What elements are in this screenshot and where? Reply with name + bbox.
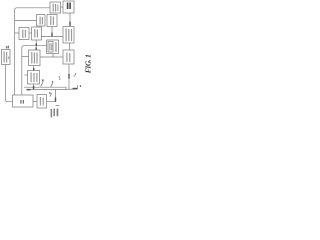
small numeral specks and lead lines (41, 82, 53, 97)
box C (63, 27, 74, 44)
box O (29, 50, 41, 66)
bus upper line (24, 87, 66, 89)
text box B dark block (67, 3, 69, 10)
wire B down to C (69, 13, 71, 27)
dark start of lower bus line (27, 89, 31, 91)
arrowhead O to M (33, 68, 34, 71)
wire I down to bus (68, 64, 70, 90)
box A (50, 2, 61, 13)
text box K (40, 97, 41, 106)
arrowhead F to O (36, 47, 37, 50)
wire H6 box O to box I (40, 56, 63, 58)
lead line d3 near K (50, 93, 52, 96)
wire A to B (61, 6, 64, 8)
text box J (20, 100, 21, 104)
text box E (22, 30, 23, 39)
text box C (66, 29, 67, 42)
box N (2, 50, 11, 65)
box F (32, 27, 42, 40)
numeral speck near d2 (52, 81, 53, 83)
svg-text:FIG. 1: FIG. 1 (83, 54, 92, 73)
box E (19, 28, 29, 40)
wire H4 from box G left (22, 46, 47, 95)
junction blob M to bus (33, 86, 35, 89)
wire H7 box F to box C (42, 36, 64, 38)
numeral speck near d3 (49, 92, 51, 94)
text box D (50, 16, 51, 25)
text box F (34, 29, 35, 38)
wire E to F (29, 32, 32, 34)
wire K right and up to bus (47, 90, 56, 102)
wire J to K (33, 101, 37, 103)
box I (63, 50, 74, 64)
wire stub into M left (25, 74, 28, 76)
label 100 block under K (51, 109, 59, 118)
wire M down to bus (33, 84, 35, 90)
junction dot on H4 (36, 43, 38, 45)
box D (47, 15, 57, 27)
dark segment bus right (73, 88, 78, 90)
box B (63, 1, 74, 13)
lead line d2 mid bus (51, 82, 53, 87)
wire D down to H7 (51, 27, 53, 37)
wire N down to J (6, 65, 13, 102)
numeral speck near d1 (42, 79, 44, 81)
dark corner on K riser (55, 97, 56, 101)
wire F down to O (35, 40, 37, 50)
darker marks (20, 3, 81, 104)
box K (37, 95, 47, 109)
box G inner (48, 42, 53, 53)
box J (13, 95, 34, 107)
wire H5 to box O (22, 56, 29, 58)
lead line d1 near M (41, 82, 43, 86)
wire O down to M (33, 66, 35, 71)
text box A (53, 4, 54, 12)
wire H3 to box E (15, 32, 19, 34)
box G (47, 40, 59, 54)
wire C down to I (69, 43, 71, 50)
text box G (49, 43, 50, 51)
text box M (31, 73, 32, 83)
text box O (31, 52, 32, 64)
numeral specks s2 (74, 75, 75, 77)
arrowhead D to H7 (51, 33, 52, 37)
wire H2 to box P (15, 20, 37, 22)
bus right end tick (76, 85, 78, 89)
short line above 100 block (56, 104, 60, 106)
dot right of bus end (80, 85, 81, 87)
text strips inside boxes (rotated illegible text) (4, 4, 73, 106)
wire G down to H6 (52, 54, 54, 58)
numeral specks s1 (59, 76, 60, 77)
dark segment on I wire (68, 74, 69, 79)
text box P (40, 17, 41, 25)
numeral above N (6, 46, 7, 48)
text box N (4, 52, 5, 63)
box P (37, 15, 46, 27)
bus lower line (27, 88, 78, 90)
box M (28, 71, 40, 85)
text box I (66, 53, 67, 63)
arrowhead B to C (69, 22, 70, 26)
wire H1 bus-left to box A (15, 8, 50, 95)
